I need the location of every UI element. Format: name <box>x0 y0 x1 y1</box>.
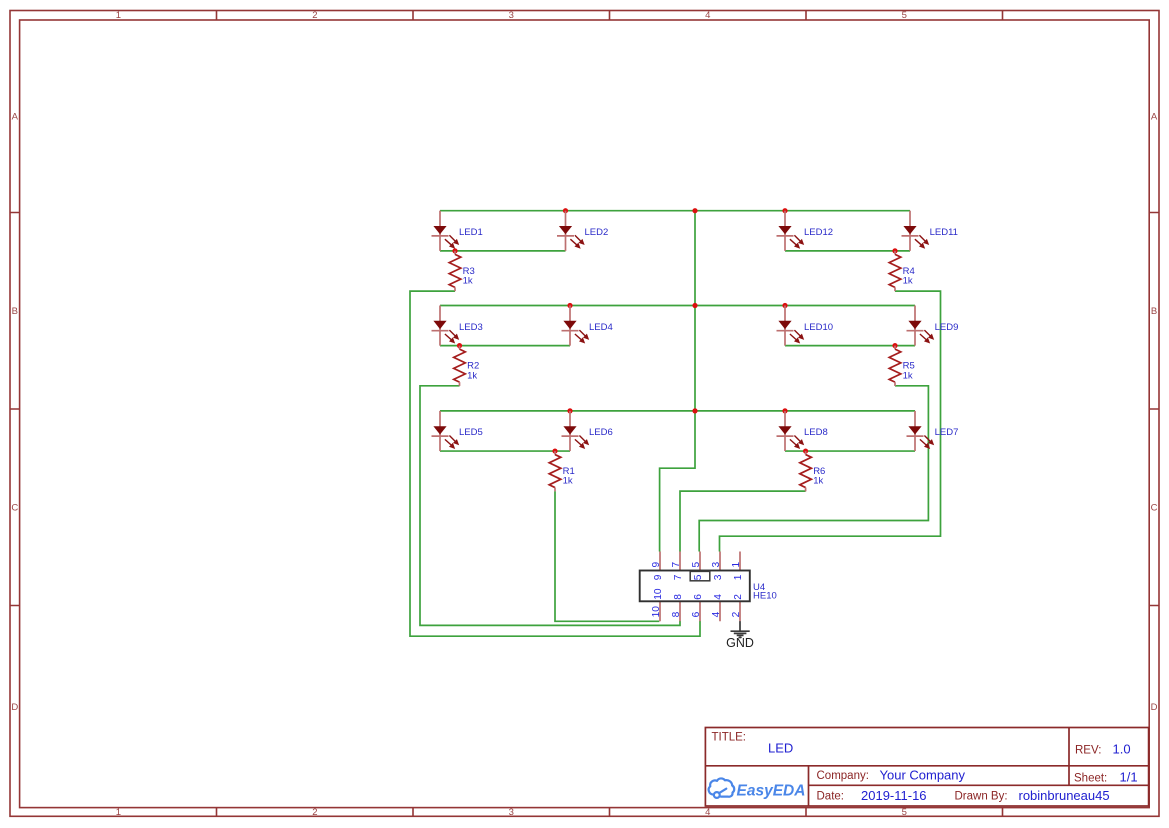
resistor R5 value 1k <box>889 346 915 386</box>
title block divider under title row <box>705 765 1148 767</box>
svg-text:LED5: LED5 <box>459 427 483 438</box>
svg-text:6: 6 <box>693 594 704 600</box>
svg-text:2: 2 <box>731 611 742 617</box>
connector U4 HE10 <box>640 552 777 622</box>
svg-text:9: 9 <box>651 562 662 568</box>
junction row3 trunk <box>692 408 697 413</box>
resistor R1 value 1k <box>549 451 575 491</box>
resistor R3 value 1k <box>449 251 475 291</box>
LED LED4 <box>562 306 613 346</box>
svg-text:1/1: 1/1 <box>1120 770 1138 785</box>
svg-text:A: A <box>1151 112 1158 123</box>
svg-text:TITLE:: TITLE: <box>712 732 747 744</box>
svg-text:LED12: LED12 <box>804 227 833 238</box>
svg-text:1k: 1k <box>463 276 473 287</box>
title block divider left of rev/sheet cells <box>1068 728 1070 786</box>
junction row1 LED12 top <box>782 208 787 213</box>
svg-text:LED3: LED3 <box>459 322 483 333</box>
svg-text:1: 1 <box>731 562 742 568</box>
svg-text:5: 5 <box>902 10 907 21</box>
svg-text:LED9: LED9 <box>935 322 959 333</box>
U4 pin numbers inside top <box>653 574 744 580</box>
wire row2 top bus <box>440 305 915 307</box>
U4 pin stubs top <box>660 552 740 571</box>
wire row3 top bus <box>440 410 915 412</box>
wire R6 to pin 7 <box>680 491 806 551</box>
svg-text:robinbruneau45: robinbruneau45 <box>1019 788 1110 803</box>
frame ticks bottom <box>217 808 1003 817</box>
svg-text:2: 2 <box>733 594 744 600</box>
frame ticks right <box>1149 213 1159 606</box>
svg-text:1k: 1k <box>903 370 913 381</box>
svg-text:LED2: LED2 <box>585 227 609 238</box>
title block divider under company row <box>809 784 1149 786</box>
svg-text:4: 4 <box>711 611 722 617</box>
resistor R6 value 1k <box>800 451 826 491</box>
frame row letters right <box>1151 112 1158 714</box>
svg-text:LED7: LED7 <box>935 427 959 438</box>
title block box <box>705 728 1148 807</box>
svg-text:Your Company: Your Company <box>880 768 966 783</box>
svg-text:5: 5 <box>691 562 702 568</box>
wire row2 bottom left segment <box>440 345 570 347</box>
svg-text:Drawn By:: Drawn By: <box>955 791 1008 803</box>
svg-text:9: 9 <box>653 574 664 580</box>
LED LED2 <box>557 211 608 251</box>
junction R6 top <box>803 448 808 453</box>
svg-text:LED10: LED10 <box>804 322 833 333</box>
junction R3 top <box>452 248 457 253</box>
resistor R2 value 1k <box>454 346 480 386</box>
svg-text:LED: LED <box>768 741 793 756</box>
wire row2 bottom right segment <box>785 345 915 347</box>
svg-text:D: D <box>11 702 18 713</box>
LED LED9 <box>907 306 959 346</box>
svg-text:4: 4 <box>713 594 724 600</box>
frame row letters left <box>11 112 18 714</box>
U4 pin numbers inside bottom <box>653 588 744 600</box>
title block divider right of logo cell <box>808 766 810 806</box>
junction R2 top <box>457 343 462 348</box>
svg-text:2019-11-16: 2019-11-16 <box>861 788 927 803</box>
svg-text:5: 5 <box>693 574 704 580</box>
wire row1 bottom left segment <box>440 250 566 252</box>
LED LED12 <box>777 211 834 251</box>
svg-text:3: 3 <box>711 562 722 568</box>
junction row2 trunk <box>692 303 697 308</box>
svg-text:LED8: LED8 <box>804 427 828 438</box>
frame column numbers top <box>116 10 907 21</box>
svg-text:8: 8 <box>671 611 682 617</box>
svg-text:1k: 1k <box>903 276 913 287</box>
svg-text:LED6: LED6 <box>589 427 613 438</box>
frame column numbers bottom <box>116 807 907 818</box>
LED LED10 <box>777 306 834 346</box>
svg-text:A: A <box>12 112 19 123</box>
svg-text:10: 10 <box>653 588 664 600</box>
svg-text:D: D <box>1151 702 1158 713</box>
U4 body <box>640 571 750 602</box>
junction row1 LED2 top <box>563 208 568 213</box>
svg-text:8: 8 <box>673 594 684 600</box>
svg-text:B: B <box>1151 306 1157 317</box>
svg-text:GND: GND <box>726 636 754 650</box>
junction row1 trunk <box>692 208 697 213</box>
LED LED3 <box>432 306 483 346</box>
LED LED6 <box>562 411 613 451</box>
svg-text:7: 7 <box>671 562 682 568</box>
svg-text:EasyEDA: EasyEDA <box>737 783 806 800</box>
wire R3 to pin 6 <box>410 291 700 636</box>
wire R2 to pin 8 <box>420 386 680 626</box>
svg-text:Date:: Date: <box>817 791 845 803</box>
resistor R4 value 1k <box>889 251 915 291</box>
wire row1 bottom right segment <box>785 250 910 252</box>
svg-text:3: 3 <box>713 574 724 580</box>
LED LED5 <box>432 411 483 451</box>
svg-text:7: 7 <box>673 574 684 580</box>
svg-text:B: B <box>12 306 18 317</box>
LED LED8 <box>777 411 828 451</box>
svg-text:LED11: LED11 <box>930 227 958 238</box>
svg-text:REV:: REV: <box>1075 745 1101 757</box>
LED LED11 <box>902 211 958 251</box>
svg-text:1.0: 1.0 <box>1113 742 1131 757</box>
svg-text:3: 3 <box>509 807 514 818</box>
svg-text:C: C <box>11 503 18 514</box>
ground GND <box>726 621 754 650</box>
U4 pin stubs bottom <box>660 601 740 621</box>
svg-text:3: 3 <box>509 10 514 21</box>
U4 pin numbers outside bottom <box>651 606 742 618</box>
svg-text:10: 10 <box>651 606 662 618</box>
wire R5 to pin 5 <box>699 386 928 552</box>
frame ticks top <box>217 11 1003 21</box>
svg-text:LED4: LED4 <box>589 322 613 333</box>
svg-text:LED1: LED1 <box>459 227 483 238</box>
EasyEDA logo cloud <box>709 778 735 797</box>
svg-text:1k: 1k <box>467 370 477 381</box>
svg-text:4: 4 <box>705 10 710 21</box>
svg-text:6: 6 <box>691 611 702 617</box>
wire R4 to pin 3 <box>720 291 941 551</box>
U4 pin numbers outside top <box>651 562 742 568</box>
junction row3 LED8 top <box>782 408 787 413</box>
svg-text:1k: 1k <box>813 476 823 487</box>
junction R4 top <box>892 248 897 253</box>
junction R1 top <box>552 448 557 453</box>
LED LED1 <box>432 211 483 251</box>
junction R5 top <box>892 343 897 348</box>
svg-text:1: 1 <box>733 574 744 580</box>
svg-text:5: 5 <box>902 807 907 818</box>
svg-text:1: 1 <box>116 807 121 818</box>
svg-text:1: 1 <box>116 10 121 21</box>
svg-text:Sheet:: Sheet: <box>1074 773 1107 785</box>
svg-text:C: C <box>1151 503 1158 514</box>
wire trunk to pin 9 <box>660 211 695 552</box>
svg-text:Company:: Company: <box>817 770 869 782</box>
svg-text:1k: 1k <box>563 476 573 487</box>
LED LED7 <box>907 411 959 451</box>
wire row3 bottom right segment <box>785 450 915 452</box>
wire row3 bottom left segment <box>440 450 570 452</box>
junction row2 LED10 top <box>782 303 787 308</box>
svg-text:2: 2 <box>312 807 317 818</box>
svg-text:2: 2 <box>312 10 317 21</box>
U4 pin 5 marker box <box>690 571 710 580</box>
frame ticks left <box>10 213 20 606</box>
svg-text:HE10: HE10 <box>753 590 777 601</box>
junction row3 LED6 top <box>567 408 572 413</box>
svg-text:4: 4 <box>705 807 710 818</box>
wire row1 top bus <box>440 210 910 212</box>
junction row2 LED4 top <box>567 303 572 308</box>
wire R1 to pin 10 <box>555 491 659 621</box>
